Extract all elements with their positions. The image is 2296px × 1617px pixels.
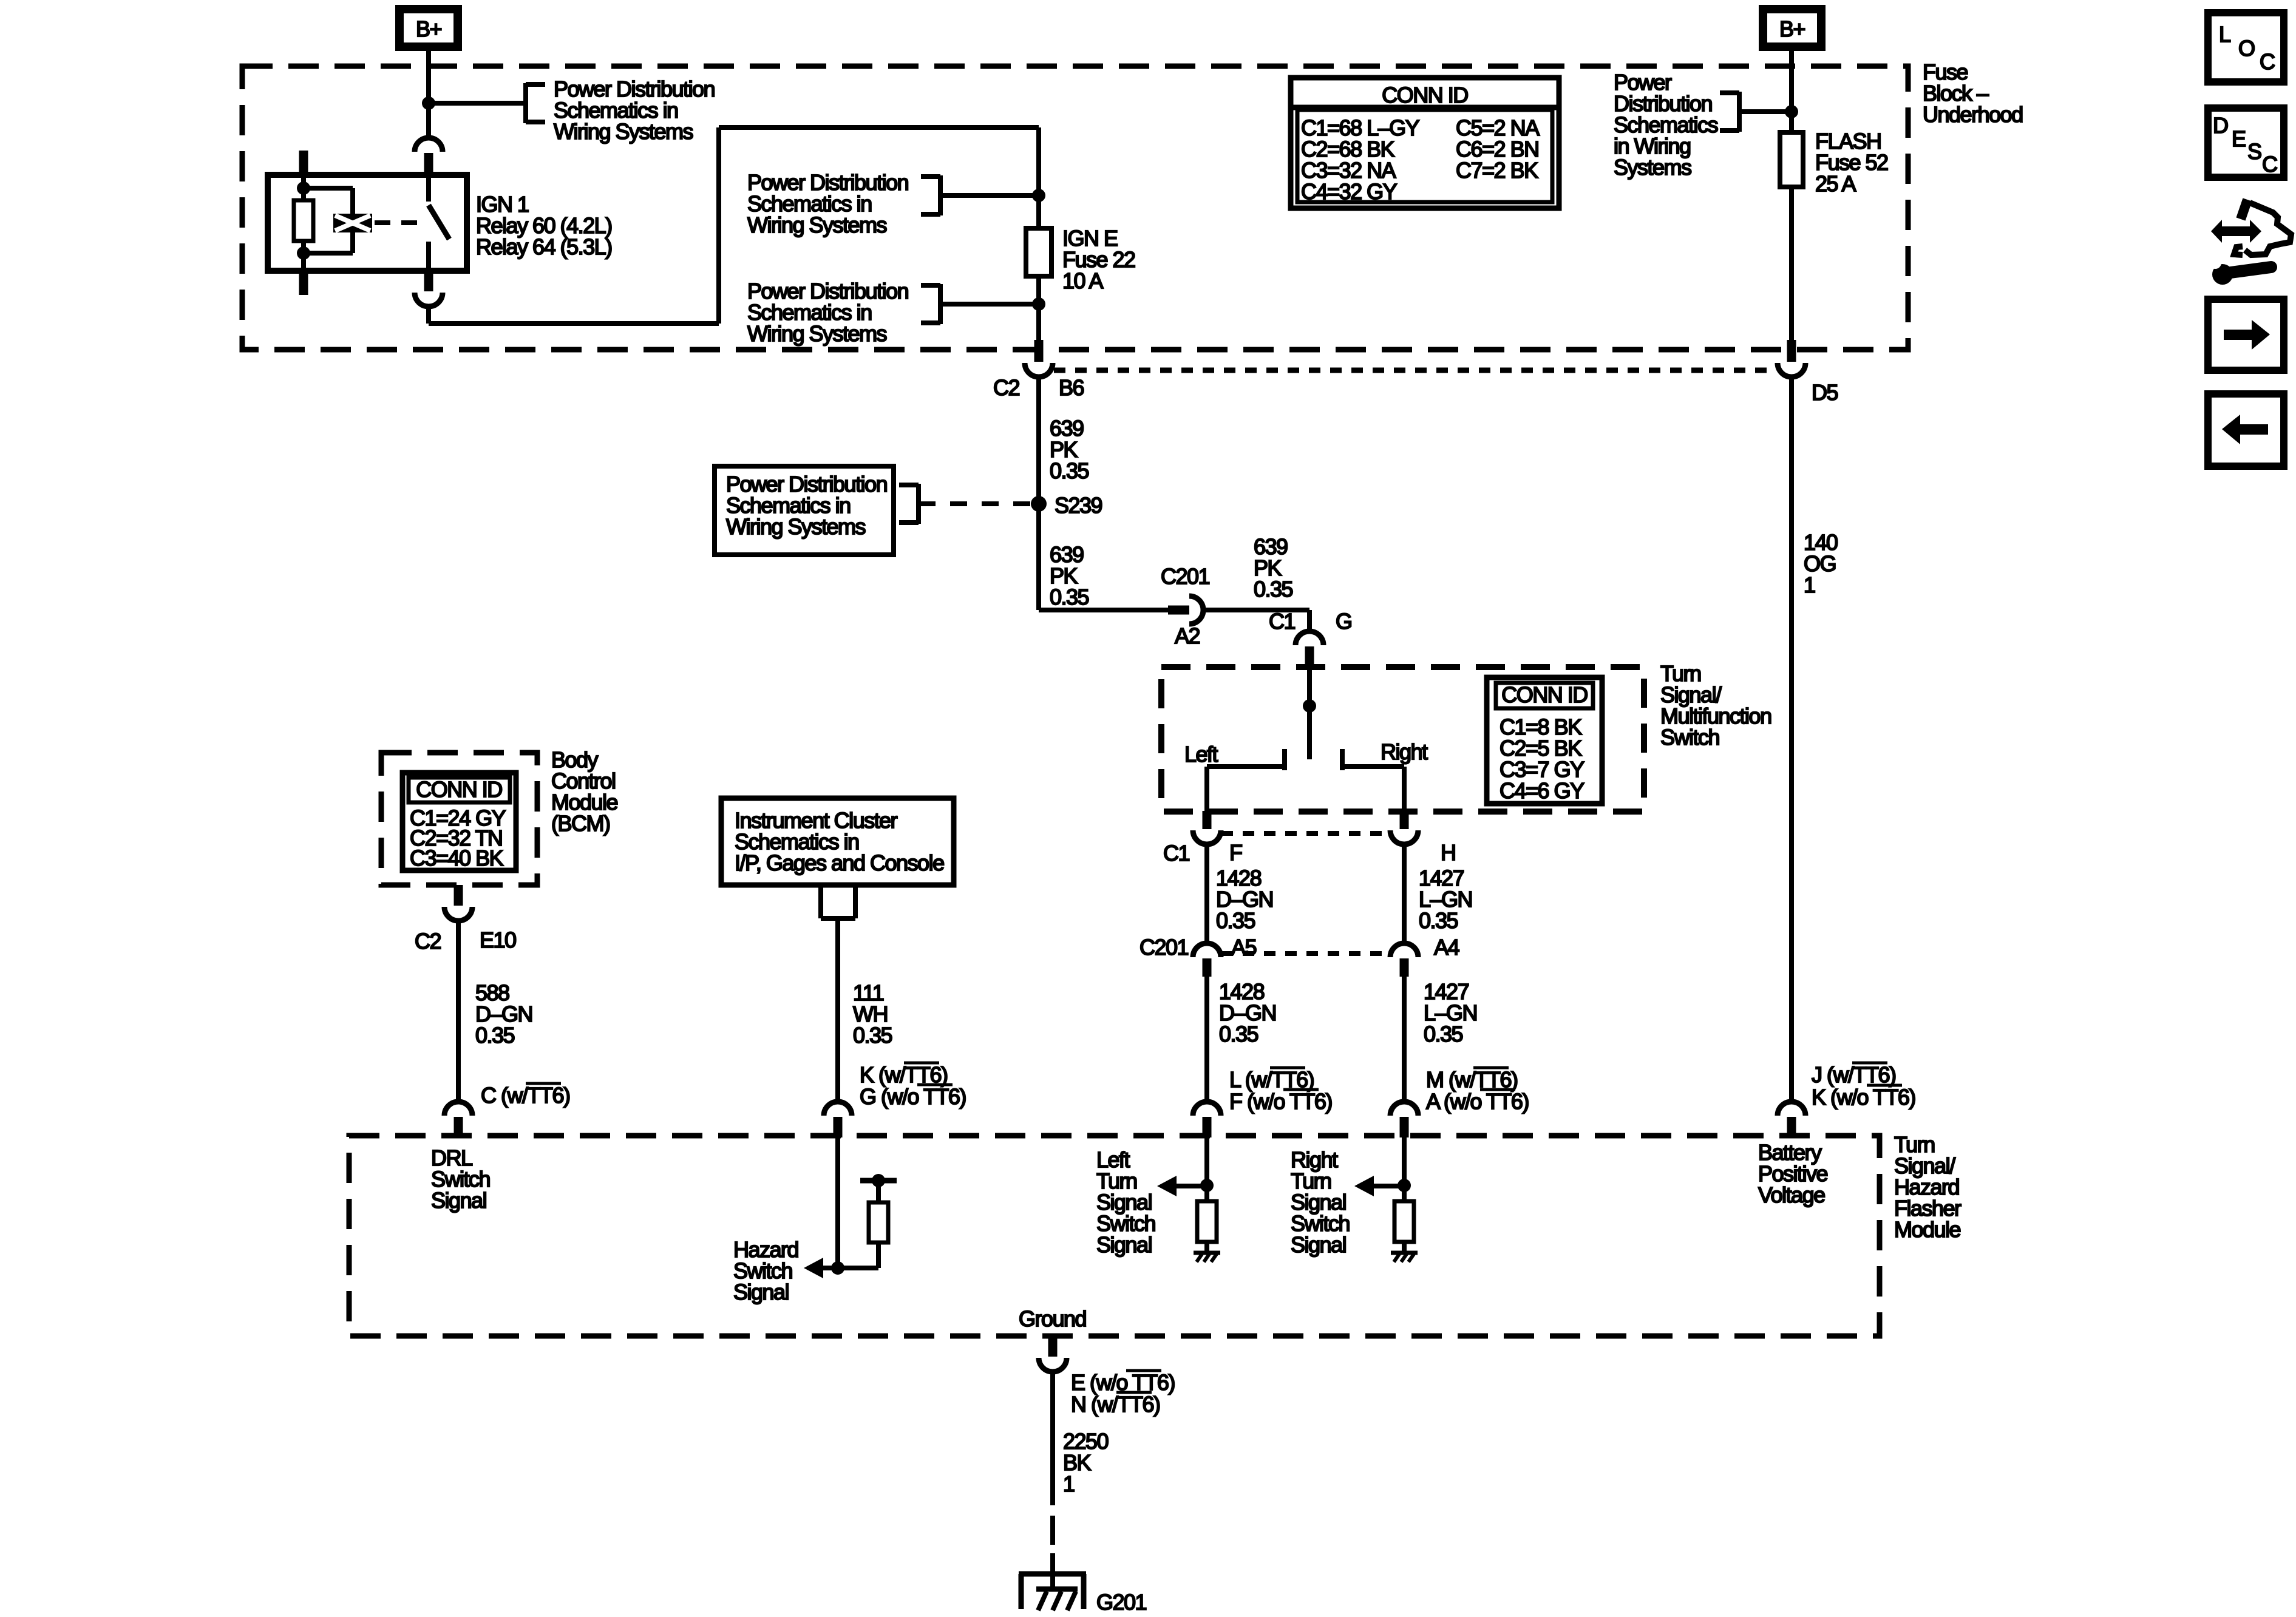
svg-text:0.35: 0.35 — [1424, 1022, 1463, 1046]
node on switch pole — [1303, 699, 1316, 713]
wire 639 PK segment 1 — [1036, 377, 1041, 610]
svg-text:D5: D5 — [1812, 380, 1838, 405]
svg-text:C: C — [2262, 152, 2277, 177]
svg-text:Switch: Switch — [1660, 725, 1719, 750]
connector C1 G at switch — [1296, 631, 1323, 645]
wire to C201 A2 — [1039, 608, 1168, 612]
connector face dotted line (fuse block) — [1054, 368, 1776, 373]
relay switch blade — [429, 205, 449, 239]
callout bracket upper mid — [938, 175, 943, 215]
svg-text:G: G — [1336, 609, 1352, 634]
svg-text:CONN ID: CONN ID — [416, 777, 502, 802]
svg-text:0.35: 0.35 — [1050, 458, 1089, 483]
icon box DESC — [2208, 108, 2284, 177]
svg-text:1: 1 — [1804, 572, 1815, 597]
svg-text:Signal: Signal — [733, 1280, 789, 1304]
svg-text:G201: G201 — [1096, 1590, 1147, 1615]
svg-text:A2: A2 — [1175, 623, 1200, 648]
node junction right B+ wire — [1785, 105, 1798, 118]
ground G201 symbol — [1019, 1571, 1086, 1577]
svg-text:Signal: Signal — [1291, 1232, 1346, 1257]
relay coil pin stub top — [299, 151, 308, 174]
node relay coil bottom — [297, 246, 310, 260]
fuse FLASH Fuse 52 25A — [1780, 132, 1803, 187]
svg-text:Signal: Signal — [1096, 1232, 1152, 1257]
connector C201 A5 — [1193, 943, 1221, 957]
callout bracket lower mid — [938, 284, 943, 324]
connector face dotted line (switch exit) — [1221, 831, 1390, 836]
svg-text:C201: C201 — [1161, 564, 1210, 589]
svg-text:D: D — [2213, 113, 2228, 138]
node relay coil top — [297, 181, 310, 195]
wire from left B+ down to junction — [426, 47, 431, 138]
callout bracket right power distribution — [1737, 92, 1742, 132]
wire callout to fuse branch lower — [940, 302, 1039, 307]
svg-text:F (w/o TT6): F (w/o TT6) — [1229, 1089, 1332, 1114]
svg-text:Systems: Systems — [1614, 155, 1691, 180]
svg-text:N (w/TT6): N (w/TT6) — [1071, 1392, 1160, 1417]
svg-text:C2: C2 — [415, 929, 441, 954]
wire 1428 lower segment — [1204, 977, 1209, 1100]
right turn resistor — [1394, 1201, 1414, 1242]
connector E/N at module ground exit — [1048, 1336, 1058, 1357]
svg-text:0.35: 0.35 — [853, 1023, 892, 1048]
left turn arrow wire — [1175, 1184, 1207, 1188]
svg-text:B+: B+ — [1779, 16, 1805, 41]
svg-text:E10: E10 — [480, 927, 516, 952]
svg-text:C1: C1 — [1269, 609, 1295, 634]
svg-text:Voltage: Voltage — [1758, 1182, 1825, 1207]
dashed wire callout to S239 — [919, 501, 1032, 506]
svg-text:C2: C2 — [993, 375, 1019, 400]
node junction on left B+ wire — [422, 97, 435, 110]
turn signal hazard flasher module dashed box — [349, 1136, 1880, 1336]
svg-text:Wiring Systems: Wiring Systems — [726, 514, 866, 539]
node junction above IGN E fuse — [1032, 189, 1045, 202]
wire IGN E fuse to C2 connector — [1036, 276, 1041, 341]
relay solenoid coil symbol (box with X) — [333, 214, 372, 232]
hazard arrow wire — [822, 1266, 878, 1270]
svg-text:0.35: 0.35 — [1219, 1022, 1258, 1046]
switch pole wire — [1307, 667, 1312, 759]
svg-text:C1: C1 — [1163, 841, 1189, 866]
svg-text:Relay 64 (5.3L): Relay 64 (5.3L) — [476, 234, 612, 259]
relay coil wire bottom segment — [301, 240, 306, 271]
wire 1427 lower segment — [1402, 977, 1407, 1100]
svg-text:1: 1 — [1063, 1471, 1075, 1496]
svg-text:I/P, Gages and Console: I/P, Gages and Console — [735, 850, 944, 875]
svg-text:25 A: 25 A — [1815, 171, 1856, 196]
wire 588 D-GN — [456, 921, 461, 1100]
icon box left arrow — [2208, 394, 2284, 466]
node junction below IGN E fuse — [1032, 297, 1045, 311]
instrument cluster box — [721, 798, 954, 885]
icon box LOC — [2208, 13, 2284, 82]
connector D5 at fuse block exit — [1787, 340, 1796, 362]
svg-text:C (w/TT6): C (w/TT6) — [481, 1083, 569, 1108]
wire FLASH fuse to D5 connector — [1789, 187, 1794, 341]
svg-text:Right: Right — [1381, 739, 1428, 764]
svg-text:C4=32 GY: C4=32 GY — [1301, 179, 1398, 204]
node right turn junction — [1398, 1179, 1411, 1192]
svg-text:0.35: 0.35 — [1216, 908, 1255, 933]
connector id table (fuse block) — [1291, 78, 1559, 208]
splice S239 — [1031, 496, 1047, 512]
wire C201 to switch entry — [1204, 608, 1309, 612]
svg-text:Wiring Systems: Wiring Systems — [747, 321, 887, 346]
relay switch contact top — [426, 175, 431, 202]
relay coil pin stub bottom — [299, 272, 308, 295]
right turn arrow wire — [1372, 1184, 1404, 1188]
svg-text:Underhood: Underhood — [1923, 102, 2023, 127]
connector C at flasher module entry — [444, 1102, 472, 1116]
connector J/K at flasher module entry — [1778, 1102, 1805, 1116]
svg-text:0.35: 0.35 — [1050, 585, 1089, 609]
left turn ground — [1194, 1251, 1220, 1255]
connector at relay pin top — [415, 138, 443, 152]
icon box right arrow — [2208, 299, 2284, 370]
connector id table (BCM) — [402, 773, 516, 870]
icon hand with double arrow and wrench — [2211, 220, 2261, 243]
svg-text:CONN ID: CONN ID — [1501, 682, 1588, 707]
left turn signal wire inside module — [1204, 1137, 1209, 1201]
svg-text:Ground: Ground — [1019, 1306, 1086, 1331]
power symbol B+ (right) — [1763, 9, 1821, 47]
svg-text:10 A: 10 A — [1062, 268, 1104, 293]
svg-text:A4: A4 — [1434, 935, 1459, 960]
svg-text:0.35: 0.35 — [475, 1023, 515, 1048]
left turn arrow head — [1157, 1176, 1177, 1196]
wire 2250 BK dashed segment — [1050, 1516, 1055, 1545]
wire junction to callout bracket — [429, 101, 526, 106]
wire 111 WH — [835, 918, 840, 1100]
wire 140 OG — [1789, 377, 1794, 1100]
connector C201 A4 — [1390, 943, 1418, 957]
fuse block underhood dashed box — [242, 66, 1908, 350]
connector face dotted line (C201 row) — [1221, 951, 1390, 956]
relay coil wire top segment — [301, 175, 306, 202]
callout box power distribution (S239) — [715, 466, 894, 555]
svg-text:CONN ID: CONN ID — [1382, 83, 1468, 107]
svg-text:0.35: 0.35 — [1254, 577, 1293, 602]
relay linkage dashed line — [375, 220, 423, 225]
connector C2 E10 at BCM exit — [454, 885, 463, 906]
svg-text:C201: C201 — [1140, 935, 1189, 960]
svg-text:O: O — [2238, 36, 2255, 61]
svg-text:H: H — [1441, 840, 1456, 865]
connector C1 H at switch exit — [1400, 811, 1409, 829]
instrument cluster exit bracket — [818, 885, 823, 918]
wire bracket to right B+ wire — [1739, 109, 1792, 114]
switch right contact — [1340, 749, 1345, 770]
svg-text:(BCM): (BCM) — [551, 811, 610, 836]
hazard resistor branch — [876, 1242, 881, 1268]
svg-text:E: E — [2232, 126, 2246, 151]
wire callout to fuse branch upper — [940, 193, 1039, 198]
left turn resistor — [1197, 1201, 1217, 1242]
svg-text:S: S — [2247, 139, 2261, 164]
svg-text:K (w/o TT6): K (w/o TT6) — [1812, 1085, 1915, 1110]
connector C2 B6 at fuse block exit — [1034, 340, 1044, 362]
right turn signal wire inside module — [1402, 1137, 1407, 1201]
svg-text:J (w/TT6): J (w/TT6) — [1812, 1062, 1895, 1087]
connector L/F at flasher module entry — [1193, 1102, 1221, 1116]
callout bracket S239 — [916, 484, 921, 524]
svg-text:0.35: 0.35 — [1419, 908, 1458, 933]
svg-text:Wiring Systems: Wiring Systems — [554, 119, 693, 144]
svg-text:Signal: Signal — [431, 1188, 486, 1213]
callout bracket left power distribution — [523, 83, 528, 123]
svg-text:A (w/o TT6): A (w/o TT6) — [1426, 1089, 1529, 1114]
connector C201 A2 inline — [1168, 606, 1189, 615]
right turn ground — [1391, 1251, 1418, 1255]
connector id table (switch) — [1487, 677, 1602, 804]
relay coil bypass wire — [304, 186, 353, 191]
svg-text:Wiring Systems: Wiring Systems — [747, 212, 887, 237]
svg-text:B6: B6 — [1059, 375, 1084, 400]
connector M/A at flasher module entry — [1390, 1102, 1418, 1116]
svg-text:F: F — [1229, 840, 1242, 865]
connector K/G at flasher module entry — [824, 1102, 852, 1116]
svg-text:C3=40 BK: C3=40 BK — [410, 846, 504, 870]
wire 1428 upper segment — [1204, 844, 1209, 944]
svg-text:B+: B+ — [416, 16, 442, 41]
body control module dashed box — [381, 753, 537, 885]
switch left contact — [1282, 749, 1287, 770]
wire from right B+ down — [1789, 47, 1794, 132]
svg-text:Module: Module — [1894, 1217, 1961, 1242]
fuse IGN E Fuse 22 10A — [1026, 228, 1051, 276]
svg-text:Left: Left — [1184, 742, 1218, 767]
svg-text:G (w/o TT6): G (w/o TT6) — [860, 1084, 966, 1109]
connector C1 F at switch exit — [1203, 811, 1212, 829]
svg-text:L: L — [2219, 22, 2230, 47]
relay coil resistor — [294, 200, 313, 241]
svg-text:S239: S239 — [1055, 493, 1102, 518]
turn signal multifunction switch dashed box — [1161, 667, 1644, 812]
svg-text:C7=2 BK: C7=2 BK — [1456, 158, 1538, 183]
connector at relay pin bottom — [424, 271, 433, 291]
wire 1427 upper segment — [1402, 844, 1407, 944]
relay IGN1 box — [268, 175, 467, 271]
relay switch contact bottom — [426, 242, 431, 271]
node left turn junction — [1200, 1179, 1214, 1192]
right turn arrow head — [1354, 1176, 1374, 1196]
wire 2250 BK — [1050, 1372, 1055, 1505]
power symbol B+ (left) — [399, 9, 458, 47]
node hazard junction — [831, 1261, 844, 1275]
svg-text:C4=6 GY: C4=6 GY — [1500, 778, 1584, 803]
wire relay output to fuse branch — [426, 307, 431, 324]
hazard arrow head — [804, 1258, 823, 1278]
svg-text:C: C — [2260, 49, 2275, 74]
hazard wire inside module — [835, 1137, 840, 1268]
